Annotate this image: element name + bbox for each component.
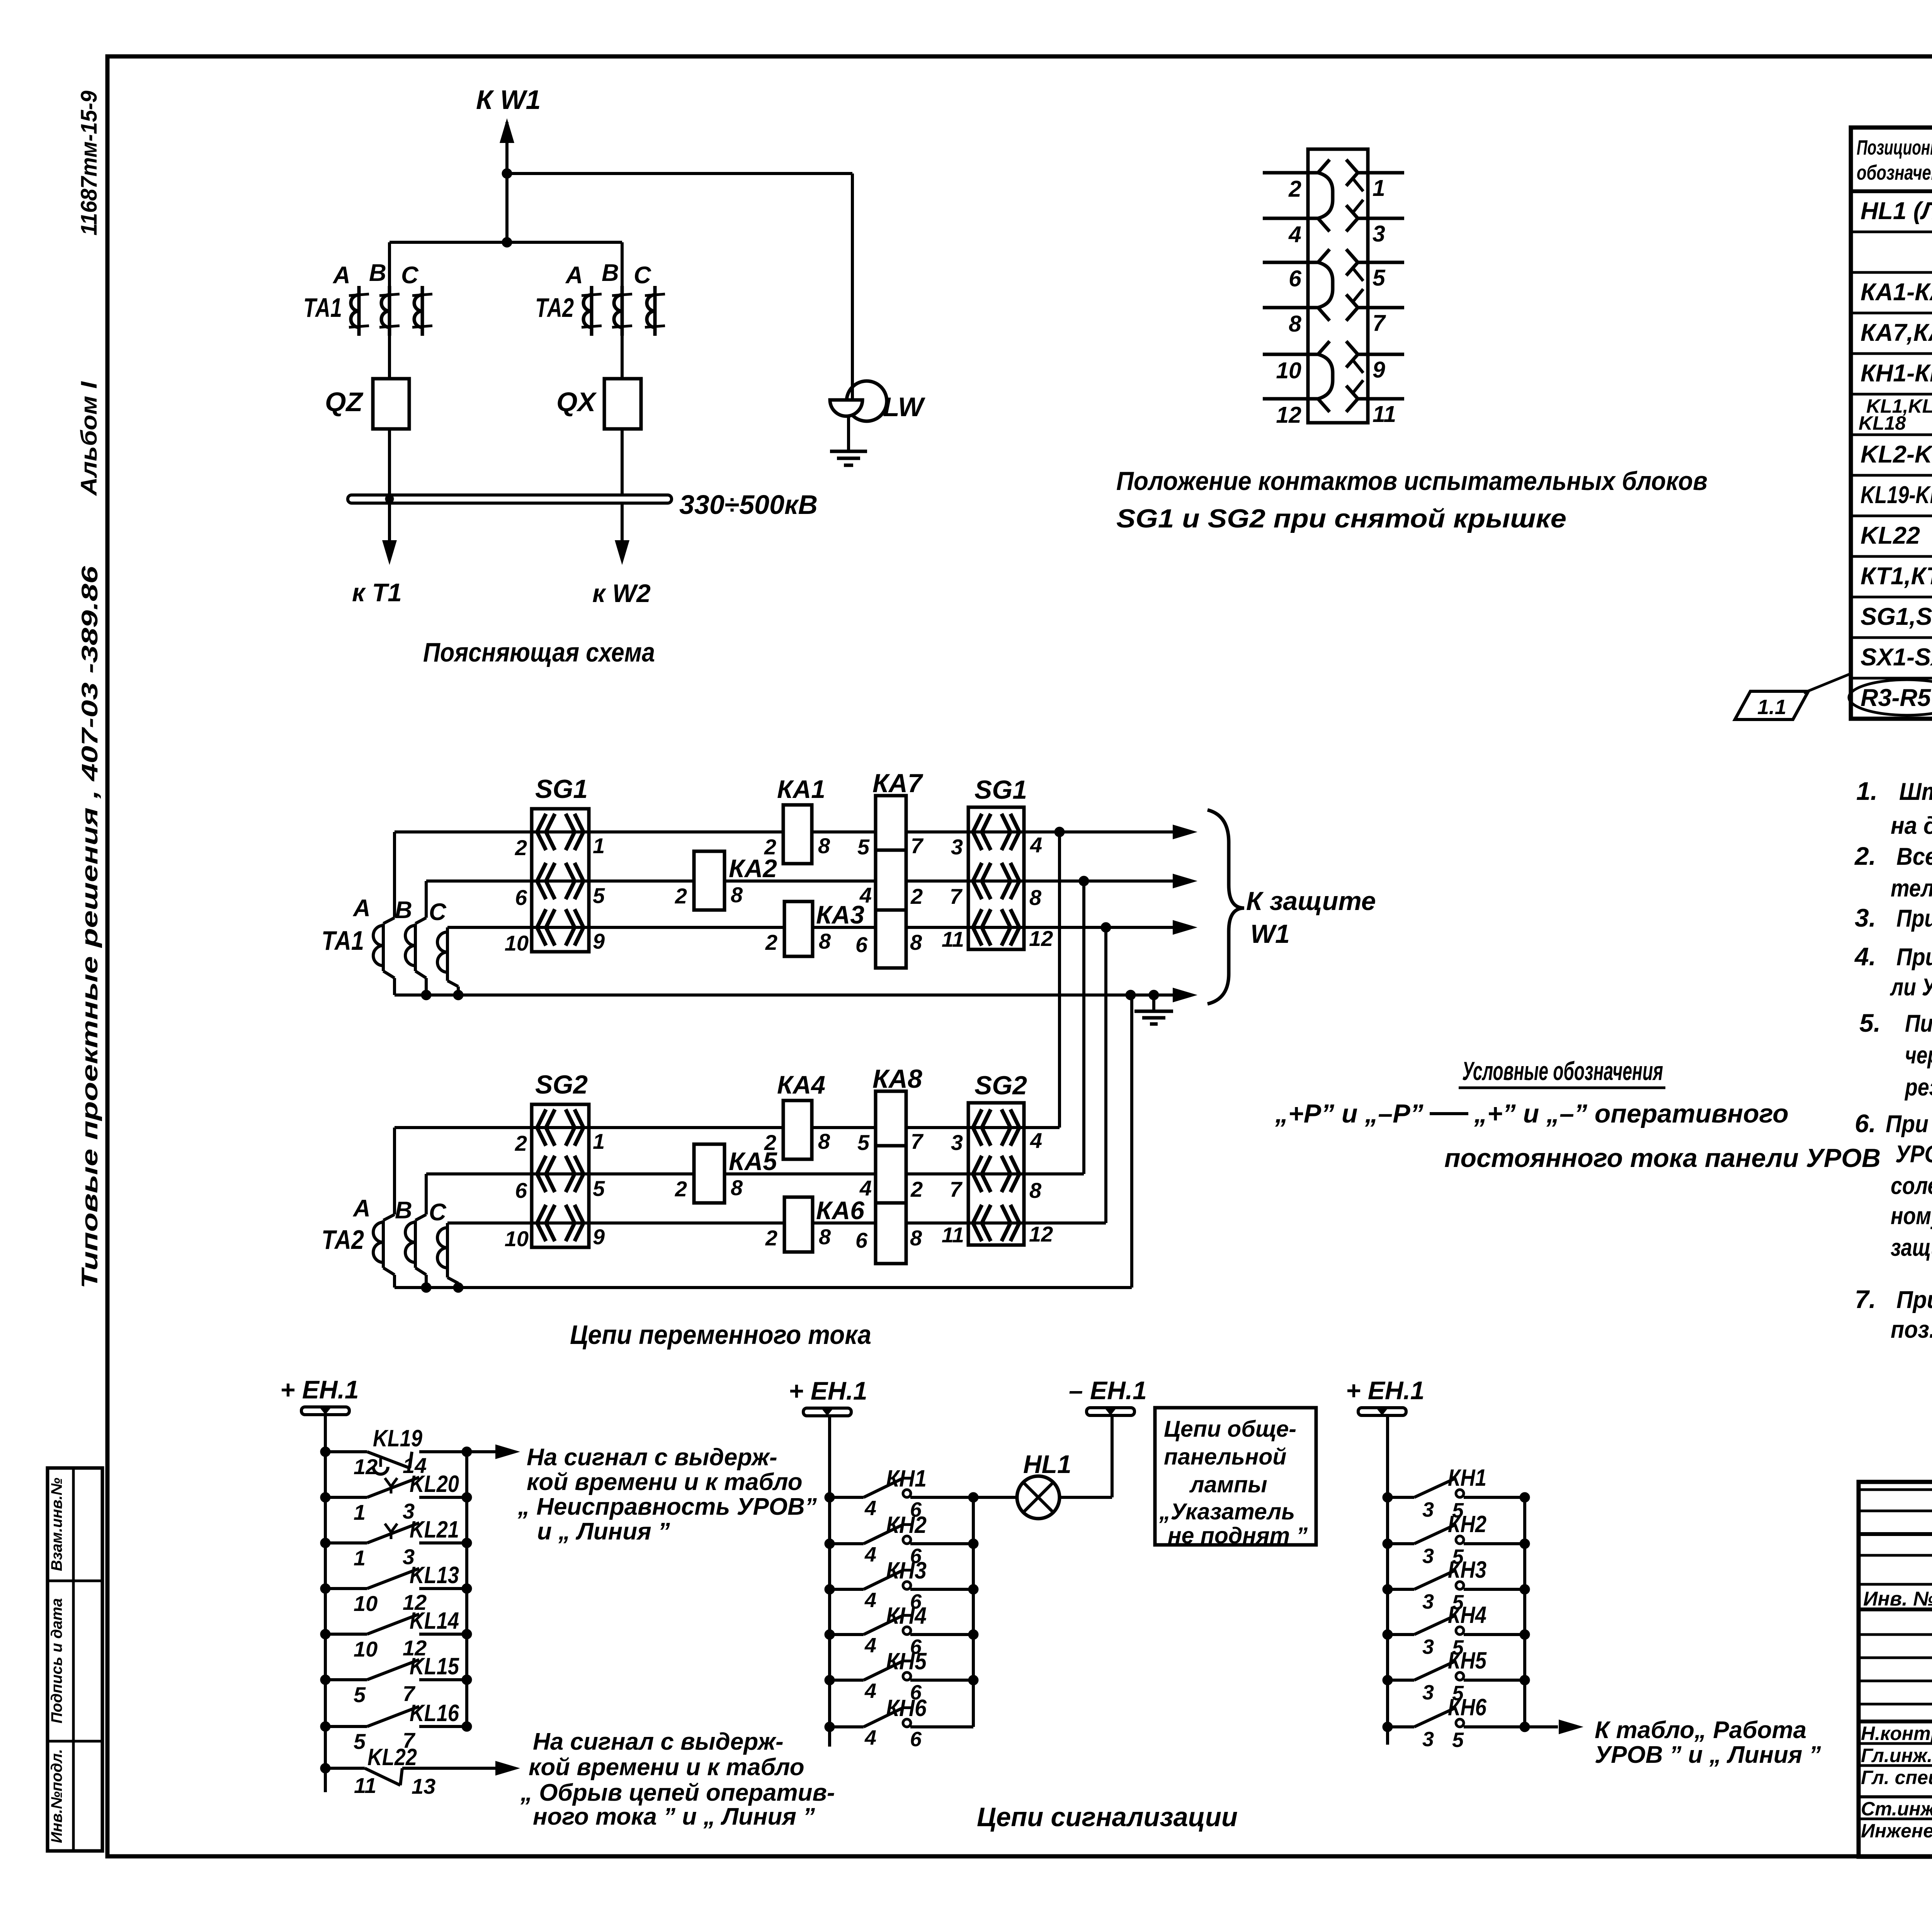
svg-text:КА7: КА7 (872, 769, 923, 798)
svg-text:6.: 6. (1855, 1109, 1876, 1138)
CT common wire (395, 993, 1173, 997)
test block left wire pin 8 (1263, 306, 1318, 310)
vertical link 4 common (1130, 995, 1133, 1288)
svg-text:КН4: КН4 (1448, 1602, 1486, 1628)
svg-text:8: 8 (819, 929, 831, 953)
svg-text:2: 2 (1288, 176, 1301, 202)
svg-text:4: 4 (864, 1679, 876, 1703)
svg-text:КА3: КА3 (816, 900, 864, 929)
test block SG2 (right) (968, 1103, 1024, 1245)
svg-text:11: 11 (942, 1223, 964, 1247)
svg-text:8: 8 (1289, 311, 1301, 337)
svg-text:„Указатель: „Указатель (1159, 1499, 1295, 1524)
svg-text:SG1: SG1 (975, 775, 1027, 805)
svg-text:7: 7 (911, 1129, 924, 1153)
left contact jaw down (1318, 218, 1330, 231)
svg-text:панельной: панельной (1164, 1444, 1286, 1470)
test block left wire pin 10 (1263, 353, 1318, 356)
svg-text:Цепи сигнализации: Цепи сигнализации (977, 1802, 1238, 1832)
test block SG1 (right) (968, 807, 1024, 949)
svg-text:2: 2 (765, 930, 777, 954)
svg-text:Цепи переменного тока: Цепи переменного тока (570, 1320, 871, 1350)
svg-text:КН2: КН2 (886, 1512, 927, 1538)
node row2 tap (1079, 876, 1089, 886)
indicating relay contact КН3 (middle) (825, 1584, 835, 1594)
svg-text:При отсутствии на линии ре: При отсутствии на линии реактора схема н… (1896, 905, 1932, 932)
test block right wire pin 1 (1358, 171, 1404, 175)
svg-text:4: 4 (864, 1634, 876, 1657)
svg-text:на других панелях .: на других панелях . (1891, 812, 1932, 839)
svg-text:постоянного тока панели УРО: постоянного тока панели УРОВ (1444, 1143, 1881, 1173)
svg-text:2: 2 (910, 1177, 923, 1201)
wire QX to busbar (621, 429, 624, 495)
svg-text:А: А (332, 262, 350, 289)
svg-text:поз. КА7 и КА8 применяются: поз. КА7 и КА8 применяются типа РТ-40/Р-… (1891, 1316, 1932, 1343)
right contact jaw up (1346, 160, 1358, 173)
wire right branch upper (621, 242, 624, 379)
arrow common (1173, 988, 1197, 1002)
svg-text:1: 1 (354, 1546, 366, 1570)
svg-text:защиты линии .: защиты линии . (1891, 1234, 1932, 1261)
svg-text:КН2: КН2 (1448, 1511, 1486, 1537)
right contact jaw up (1346, 294, 1358, 308)
svg-text:В: В (395, 897, 412, 924)
svg-text:KL22: KL22 (1861, 522, 1920, 549)
indicating relay contact КН6 (middle) (825, 1722, 835, 1732)
svg-text:Инв.№подл.: Инв.№подл. (48, 1749, 65, 1843)
svg-text:KL16: KL16 (410, 1700, 459, 1726)
svg-text:8: 8 (818, 1129, 830, 1153)
busbar 330÷500кВ (348, 495, 672, 503)
svg-text:„ Обрыв цепей оператив-: „ Обрыв цепей оператив- (520, 1779, 835, 1806)
svg-text:В: В (602, 260, 619, 286)
arrow row2 (1173, 874, 1197, 888)
phase A row wire (395, 1126, 1060, 1129)
table row line (1851, 555, 1932, 558)
svg-text:ному току от аккумуляторной: ному току от аккумуляторной батареи , чт… (1891, 1203, 1932, 1230)
svg-text:На сигнал с выдерж-: На сигнал с выдерж- (533, 1728, 784, 1755)
current relay КА5 (694, 1144, 724, 1203)
relay contact KL22 (320, 1763, 330, 1773)
svg-text:Поясняющая схема: Поясняющая схема (423, 637, 655, 667)
relay contact KL20 (320, 1492, 330, 1502)
arrow КН output (1559, 1720, 1583, 1734)
svg-text:3: 3 (951, 1130, 963, 1155)
table row line (1851, 312, 1932, 315)
svg-text:4: 4 (864, 1589, 876, 1612)
title block sig row line (1859, 1818, 1932, 1820)
margin stamp boxes (48, 1468, 102, 1851)
arrow row3 (1173, 920, 1197, 935)
svg-text:4: 4 (864, 1726, 876, 1749)
right contact jaw down (1346, 262, 1358, 276)
lamp HL1 (973, 1496, 1017, 1499)
collector bus КН right group (1523, 1497, 1526, 1727)
svg-text:Штрихпунктирной линией показ: Штрихпунктирной линией показана аппарату… (1899, 778, 1932, 805)
svg-text:SG1: SG1 (535, 774, 588, 804)
svg-text:8: 8 (819, 1225, 831, 1249)
right contact jaw down (1346, 308, 1358, 321)
title block sig row line (1859, 1764, 1932, 1767)
svg-text:Подпись и дата: Подпись и дата (48, 1598, 65, 1723)
left contact jaw down (1318, 399, 1330, 412)
svg-text:330÷500кВ: 330÷500кВ (679, 490, 818, 520)
svg-text:3: 3 (1372, 221, 1385, 247)
svg-text:Гл. спец.: Гл. спец. (1861, 1767, 1932, 1788)
title block left row line (1859, 1532, 1932, 1536)
svg-text:8: 8 (910, 1226, 922, 1250)
svg-text:+ ЕН.1: + ЕН.1 (789, 1376, 867, 1405)
CT coil TA2-B (621, 286, 624, 336)
node common tap (1126, 990, 1136, 1000)
svg-text:ТА1: ТА1 (303, 293, 342, 323)
right contact jaw down (1346, 399, 1358, 412)
node row3 tap (1101, 922, 1111, 932)
collector bus KL group (465, 1452, 468, 1726)
arrow to T1 (382, 540, 397, 565)
relay contact KL21 (320, 1538, 330, 1548)
svg-text:К защите: К защите (1246, 886, 1376, 916)
svg-text:5: 5 (354, 1729, 366, 1754)
bus +EH.1 КН right group (1386, 1415, 1389, 1745)
CT coil TA1-B (388, 286, 391, 336)
svg-text:ТА2: ТА2 (535, 293, 574, 323)
table row line (1851, 231, 1932, 233)
test block right wire pin 9 (1358, 353, 1404, 356)
svg-text:КА4: КА4 (777, 1070, 825, 1099)
wave trap LW (847, 381, 887, 421)
svg-text:С: С (429, 899, 447, 925)
svg-text:и „ Линия ”: и „ Линия ” (537, 1518, 670, 1545)
legend underline (1459, 1087, 1665, 1089)
table row line (1851, 596, 1932, 599)
svg-text:6: 6 (515, 885, 527, 910)
svg-text:КН5: КН5 (1448, 1647, 1487, 1674)
test block left wire pin 4 (1263, 217, 1318, 220)
svg-text:SG2: SG2 (535, 1070, 588, 1099)
node common B (421, 1283, 431, 1293)
current relay КА4 (783, 1101, 812, 1159)
svg-text:11: 11 (354, 1773, 376, 1798)
indicating relay contact КН1 (right) (1383, 1492, 1393, 1502)
svg-text:3.: 3. (1855, 903, 1876, 932)
svg-text:KL19-KL21: KL19-KL21 (1861, 481, 1932, 509)
ground symbol (AC common) (1134, 1010, 1173, 1013)
svg-text:Н.контр.: Н.контр. (1861, 1723, 1932, 1744)
svg-text:Все внешние связи панели д: Все внешние связи панели должны быть выв… (1896, 843, 1932, 870)
svg-text:SG1,SG2: SG1,SG2 (1861, 603, 1932, 630)
svg-text:1: 1 (593, 833, 605, 858)
svg-text:1: 1 (1372, 175, 1385, 201)
svg-text:В: В (395, 1197, 412, 1224)
svg-text:10: 10 (505, 1226, 529, 1251)
svg-text:2.: 2. (1854, 842, 1876, 870)
svg-text:УРОВ ” и „ Линия ”: УРОВ ” и „ Линия ” (1595, 1742, 1821, 1768)
CT coil ТА1 phase C (446, 927, 449, 981)
svg-text:КА7,КА8: КА7,КА8 (1861, 319, 1932, 346)
svg-text:При использовании трансформа: При использовании трансформаторов тока с… (1896, 1286, 1932, 1313)
svg-text:обозначения: обозначения (1857, 161, 1932, 184)
svg-text:8: 8 (731, 1175, 743, 1200)
svg-text:„+Р” и „–Р”: „+Р” и „–Р” (1275, 1099, 1423, 1128)
svg-text:10: 10 (354, 1637, 378, 1661)
output wire КН right group (1525, 1725, 1558, 1728)
svg-text:10: 10 (505, 931, 529, 955)
indicating relay contact КН5 (right) (1383, 1675, 1393, 1685)
arrow KL22 output (495, 1761, 520, 1776)
title block sig row line (1859, 1720, 1932, 1723)
relay contact KL14 (320, 1629, 330, 1639)
svg-text:5: 5 (354, 1682, 366, 1707)
wire QZ to busbar (388, 429, 391, 495)
svg-text:2: 2 (515, 1131, 527, 1155)
left contact jaw up (1318, 160, 1330, 173)
svg-text:12: 12 (1029, 1222, 1053, 1246)
svg-text:R3-R5: R3-R5 (1861, 684, 1931, 711)
indicating relay contact КН4 (middle) (825, 1630, 835, 1640)
svg-text:ного тока ” и „ Линия ”: ного тока ” и „ Линия ” (533, 1803, 815, 1830)
relay contact KL16 (320, 1721, 330, 1732)
table header line (1851, 189, 1932, 193)
svg-text:KL18: KL18 (1859, 412, 1906, 434)
CT common wire (395, 1286, 1132, 1289)
svg-text:КН1: КН1 (886, 1465, 927, 1492)
svg-text:KL13: KL13 (410, 1562, 459, 1588)
indicating relay contact КН2 (right) (1383, 1539, 1393, 1549)
svg-text:КН3: КН3 (1448, 1556, 1486, 1583)
test block bridge pins 10-12 (1318, 354, 1333, 399)
svg-text:Условные обозначения: Условные обозначения (1462, 1056, 1663, 1086)
table row line (1851, 636, 1932, 639)
current relay КА8 (876, 1091, 906, 1264)
breaker QZ box (373, 379, 409, 429)
title block sig row line (1859, 1795, 1932, 1798)
svg-text:2: 2 (910, 884, 923, 908)
svg-text:„ Неисправность УРОВ”: „ Неисправность УРОВ” (517, 1493, 817, 1520)
phase B row wire (426, 879, 1173, 883)
svg-text:Позиционные: Позиционные (1857, 136, 1932, 159)
svg-text:При отсутствии ОАПВ все вн: При отсутствии ОАПВ все внешние связи от… (1896, 944, 1932, 971)
svg-text:КН6: КН6 (886, 1695, 927, 1721)
relay contact KL19 (320, 1447, 330, 1457)
svg-text:Типовые проектные решения: Типовые проектные решения , 407-03 -389.… (77, 566, 102, 1289)
test block left wire pin 2 (1263, 171, 1318, 175)
KL19 latch mark (373, 1467, 388, 1474)
indicating relay contact КН3 (right) (1383, 1584, 1393, 1594)
svg-text:QZ: QZ (325, 387, 363, 417)
svg-text:А: А (352, 895, 371, 922)
svg-text:ТА1: ТА1 (321, 925, 364, 956)
svg-text:6: 6 (855, 932, 868, 957)
current relay КА7 (876, 796, 906, 968)
bus +EH.1 КН middle group (828, 1416, 831, 1747)
current relay КА2 (694, 851, 724, 910)
svg-text:2: 2 (675, 1177, 687, 1201)
test block right wire pin 7 (1358, 306, 1404, 310)
svg-text:HL1: HL1 (1023, 1450, 1071, 1478)
wire tee horizontal (389, 241, 622, 244)
svg-text:В: В (369, 260, 386, 286)
table row line (1851, 271, 1932, 274)
svg-text:Взам.инв.№: Взам.инв.№ (48, 1478, 65, 1571)
svg-text:кой времени и к табло: кой времени и к табло (527, 1469, 803, 1495)
svg-text:4: 4 (1288, 222, 1301, 247)
indicating relay contact КН4 (right) (1383, 1630, 1393, 1640)
svg-text:+ ЕН.1: + ЕН.1 (280, 1375, 359, 1404)
test block outline (1308, 149, 1368, 423)
title block left row line (1859, 1633, 1932, 1636)
title block left row line (1859, 1703, 1932, 1706)
title block left row line (1859, 1488, 1932, 1491)
title block sig row line (1859, 1742, 1932, 1745)
right open-bridge mark (1353, 289, 1363, 301)
svg-text:К табло„ Работа: К табло„ Работа (1595, 1717, 1806, 1744)
svg-text:10: 10 (1276, 358, 1301, 383)
title block left row line (1859, 1510, 1932, 1512)
arrow row1 (1173, 825, 1197, 839)
node common C (453, 1283, 463, 1293)
right open-bridge mark (1353, 380, 1363, 393)
collector bus КН middle group (972, 1497, 975, 1727)
svg-text:КА5: КА5 (729, 1147, 777, 1175)
right contact jaw up (1346, 386, 1358, 399)
relay contact KL13 (320, 1584, 330, 1594)
test block right wire pin 11 (1358, 397, 1404, 401)
output wire KL group (467, 1450, 495, 1453)
svg-text:КН4: КН4 (886, 1602, 927, 1629)
svg-text:2: 2 (515, 835, 527, 860)
indicating relay contact КН1 (middle) (825, 1492, 835, 1502)
svg-text:ли УРОВ не подводятся . Рел: ли УРОВ не подводятся . Реле KL1 и KL19 … (1889, 974, 1932, 1001)
phase B row wire (426, 1172, 1084, 1175)
terminal +ЕН.1 (КН middle group) (803, 1408, 851, 1416)
svg-text:9: 9 (1372, 357, 1385, 383)
svg-text:KL19: KL19 (373, 1425, 422, 1451)
svg-text:KL20: KL20 (410, 1471, 459, 1497)
svg-text:SG1 и SG2 при снятой крышке: SG1 и SG2 при снятой крышке (1116, 504, 1566, 533)
svg-text:Положение контактов испытате: Положение контактов испытательных блоков (1116, 466, 1708, 496)
svg-text:С: С (634, 262, 651, 289)
svg-text:1: 1 (354, 1500, 366, 1524)
indicating relay contact КН5 (middle) (825, 1675, 835, 1685)
ground symbol LW (830, 450, 867, 453)
test block bridge pins 6-8 (1318, 262, 1333, 308)
phase A row wire (395, 830, 1173, 833)
svg-text:12: 12 (1029, 926, 1053, 951)
svg-text:КА8: КА8 (872, 1064, 922, 1094)
test block bridge pins 2-4 (1318, 173, 1333, 218)
svg-text:КН6: КН6 (1448, 1694, 1487, 1720)
svg-text:HL1 (ЛС): HL1 (ЛС) (1861, 197, 1932, 225)
svg-text:лампы: лампы (1189, 1472, 1267, 1497)
svg-text:Инженер: Инженер (1861, 1820, 1932, 1842)
svg-text:5: 5 (1372, 265, 1386, 291)
right open-bridge mark (1353, 361, 1363, 373)
svg-text:4: 4 (1030, 1128, 1042, 1153)
svg-text:3: 3 (951, 835, 963, 859)
right open-bridge mark (1353, 179, 1363, 191)
svg-text:QX: QX (556, 387, 597, 417)
test block right wire pin 3 (1358, 217, 1404, 220)
svg-text:4: 4 (859, 883, 872, 907)
right contact jaw up (1346, 205, 1358, 218)
svg-text:УРОВᵃ на отключение своих: УРОВᵃ на отключение своих выключателей о… (1895, 1141, 1932, 1168)
svg-text:3: 3 (1422, 1590, 1434, 1613)
wire busbar to T1 (388, 503, 391, 541)
terminal +ЕН.1 (КН right group) (1358, 1408, 1406, 1415)
svg-text:к Т1: к Т1 (352, 578, 402, 607)
svg-text:4: 4 (864, 1497, 876, 1520)
svg-text:SG2: SG2 (975, 1071, 1027, 1100)
svg-text:КН1: КН1 (1448, 1465, 1486, 1491)
svg-text:5: 5 (593, 1176, 605, 1201)
svg-text:7: 7 (950, 1177, 963, 1201)
left contact jaw up (1318, 341, 1330, 354)
CT coil TA1-A (357, 286, 361, 336)
phase C row wire (447, 926, 1173, 929)
svg-text:При наличии двух соленоидов: При наличии двух соленоидов отключения в… (1886, 1111, 1932, 1138)
arrow to W2 (615, 540, 629, 565)
svg-text:9: 9 (593, 1225, 605, 1249)
svg-text:КА2: КА2 (729, 854, 777, 883)
node common B (421, 990, 431, 1000)
svg-text:3: 3 (1422, 1635, 1434, 1658)
right contact jaw up (1346, 249, 1358, 262)
info box lamp note (1155, 1408, 1316, 1545)
title block left row line (1859, 1554, 1932, 1557)
test block left wire pin 12 (1263, 397, 1318, 401)
svg-text:А: А (352, 1195, 371, 1222)
svg-text:КА1-КА6: КА1-КА6 (1861, 279, 1932, 306)
vertical link 3 (1104, 927, 1107, 1223)
svg-text:7: 7 (1372, 310, 1386, 336)
flag leader line (1804, 673, 1852, 693)
title block left row line (1859, 1607, 1932, 1611)
svg-text:8: 8 (1029, 885, 1042, 910)
table row line (1851, 352, 1932, 355)
KL20 Y mark (390, 1487, 393, 1493)
svg-text:2: 2 (765, 1226, 777, 1250)
revision flag 1.1 (1735, 691, 1808, 720)
svg-text:5: 5 (857, 1130, 870, 1155)
test block right wire pin 5 (1358, 261, 1404, 264)
svg-text:11: 11 (1372, 401, 1396, 427)
CT coil ТА2 phase (425, 1174, 428, 1214)
svg-text:Гл.инж.пр.: Гл.инж.пр. (1861, 1745, 1932, 1766)
svg-text:3: 3 (1422, 1681, 1434, 1704)
table row line (1851, 677, 1932, 680)
indicating relay contact КН2 (middle) (825, 1539, 835, 1549)
svg-text:SX1-SX8: SX1-SX8 (1861, 644, 1932, 671)
svg-text:KL15: KL15 (410, 1653, 459, 1679)
svg-text:1: 1 (593, 1129, 605, 1153)
wire busbar to W2 (621, 503, 624, 541)
wire HL1 to -EH.1 (1060, 1496, 1112, 1499)
right contact jaw down (1346, 354, 1358, 367)
terminal +ЕН.1 (KL group) (301, 1407, 349, 1415)
svg-text:+ ЕН.1: + ЕН.1 (1346, 1376, 1425, 1405)
svg-text:КА6: КА6 (816, 1196, 865, 1225)
svg-text:через отдельный автомат от: через отдельный автомат от аккумуляторно… (1905, 1042, 1932, 1069)
right contact jaw up (1346, 341, 1358, 354)
CT coil TA2-A (590, 286, 594, 336)
svg-text:К W1: К W1 (476, 85, 541, 115)
svg-text:11: 11 (942, 927, 964, 951)
svg-text:КТ1,КТ2: КТ1,КТ2 (1861, 563, 1932, 590)
wire to LW branch (507, 172, 852, 175)
left contact jaw up (1318, 249, 1330, 262)
svg-text:„+” и „–” оперативного: „+” и „–” оперативного (1474, 1099, 1789, 1128)
